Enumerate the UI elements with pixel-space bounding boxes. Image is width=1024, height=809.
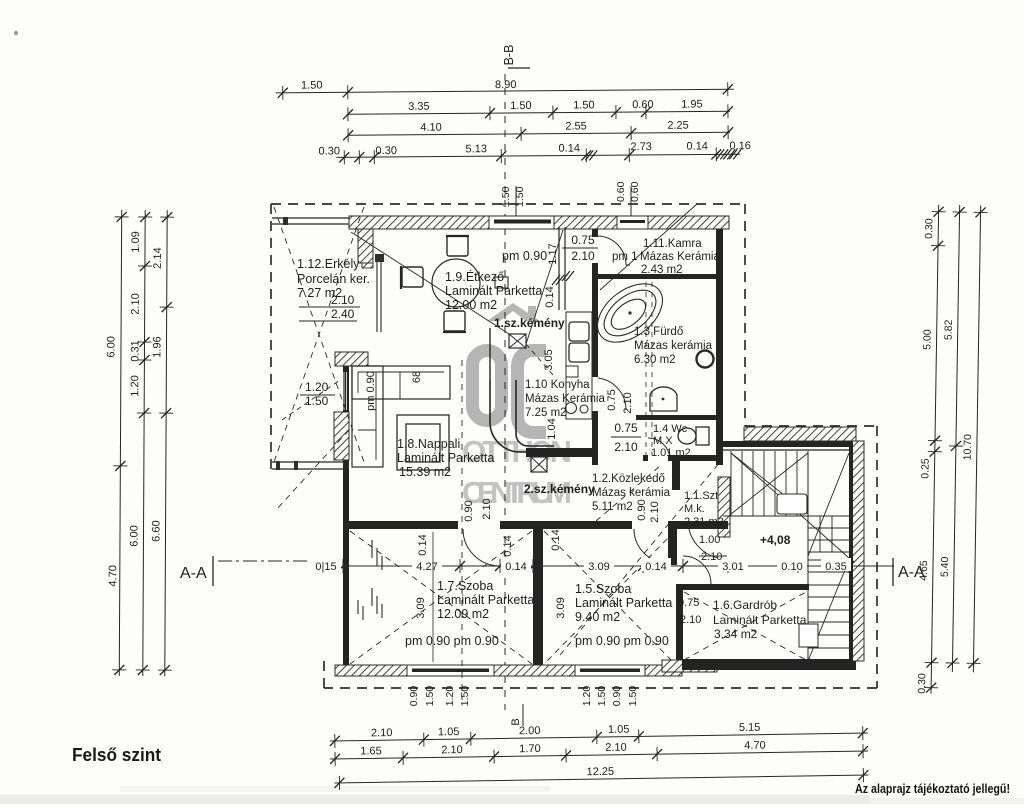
dimension chain bottom row3 total 12.25 xyxy=(334,775,868,783)
gardrob dashed diagonals xyxy=(684,592,806,660)
section line B-B vertical dashed xyxy=(504,74,506,710)
dining diagonal to chimney xyxy=(351,232,509,334)
bath diagonal xyxy=(600,204,697,290)
svg-text:1.50: 1.50 xyxy=(596,686,608,707)
sofa horizontal arm xyxy=(352,366,450,399)
hatched strip above stairs xyxy=(744,427,856,441)
kitchen/bath divider wall upper xyxy=(592,263,598,377)
svg-text:Laminált Parketta: Laminált Parketta xyxy=(437,593,534,607)
kitchen/bath divider wall lower xyxy=(592,411,598,465)
svg-text:0.90: 0.90 xyxy=(463,500,475,521)
svg-text:Mázas Kerámia: Mázas Kerámia xyxy=(525,393,605,405)
svg-text:5.82: 5.82 xyxy=(943,319,955,340)
bottom wall hatched block near stairs xyxy=(662,660,717,672)
pencil marks near left wall xyxy=(371,540,373,558)
dashed site boundary right upper xyxy=(744,204,746,426)
svg-text:pm 1: pm 1 xyxy=(612,251,638,263)
top exterior wall hatched segment A xyxy=(349,216,489,229)
svg-text:3.35: 3.35 xyxy=(408,101,430,113)
svg-text:0.14: 0.14 xyxy=(550,529,562,550)
svg-text:2.10: 2.10 xyxy=(649,501,661,522)
dimension chain left line1 xyxy=(119,210,121,676)
balcony railing top xyxy=(272,217,349,219)
left wall window (Nappali) hatched block xyxy=(334,412,349,460)
scan streak bottom xyxy=(0,795,870,804)
wc toilet xyxy=(678,428,696,444)
watermark letter C xyxy=(518,351,547,433)
hallway to szoba 1.5 door arc xyxy=(634,529,668,563)
svg-text:2.25: 2.25 xyxy=(667,120,689,132)
watermark letter O xyxy=(473,351,502,421)
svg-text:0.10: 0.10 xyxy=(781,561,802,573)
tv table xyxy=(397,415,449,470)
svg-text:1.50: 1.50 xyxy=(510,100,532,112)
svg-text:3.01: 3.01 xyxy=(722,561,743,573)
kamra door arc xyxy=(597,236,626,265)
staircase landing treads right top xyxy=(808,527,849,529)
svg-text:1.50: 1.50 xyxy=(627,686,639,707)
svg-text:1.11.Kamra: 1.11.Kamra xyxy=(643,238,702,250)
svg-text:1.65: 1.65 xyxy=(360,745,382,757)
svg-text:1.01 m2: 1.01 m2 xyxy=(651,447,691,459)
svg-text:1.20: 1.20 xyxy=(129,375,141,396)
chimney duct channel outer xyxy=(490,380,554,452)
wall stub below top wall at balcony xyxy=(358,229,373,263)
chimney wall line upper xyxy=(489,328,491,380)
svg-text:1.50: 1.50 xyxy=(573,99,595,111)
balcony railing bottom xyxy=(272,461,343,463)
svg-text:12.25: 12.25 xyxy=(586,766,614,778)
svg-text:2.43 m2: 2.43 m2 xyxy=(641,264,683,276)
svg-text:0.14: 0.14 xyxy=(417,534,429,555)
interior wall segment 2 xyxy=(500,521,632,529)
svg-text:1.20: 1.20 xyxy=(444,686,456,707)
svg-text:A-A: A-A xyxy=(898,564,925,581)
stair block bottom wall xyxy=(682,659,856,670)
svg-text:A-A: A-A xyxy=(180,565,207,582)
top wall window 2 xyxy=(617,216,648,229)
bath right exterior wall xyxy=(716,229,723,465)
long diagonal through hallway xyxy=(560,462,720,655)
stair right wall hatched xyxy=(852,441,864,661)
szt door arc xyxy=(688,521,727,559)
svg-text:1.95: 1.95 xyxy=(681,99,703,111)
svg-text:2.00: 2.00 xyxy=(519,725,541,737)
svg-text:1.50: 1.50 xyxy=(459,686,471,707)
dashed site boundary right lower xyxy=(876,426,878,688)
wc bottom wall left xyxy=(643,455,648,461)
svg-text:0|15: 0|15 xyxy=(315,561,336,573)
svg-text:15.39 m2: 15.39 m2 xyxy=(399,465,451,479)
szoba 1.5 dashed cross xyxy=(544,531,675,664)
chair left xyxy=(402,267,423,287)
svg-text:1.1.Szt: 1.1.Szt xyxy=(684,490,718,502)
svg-text:1.00: 1.00 xyxy=(699,534,720,546)
wc top wall xyxy=(636,415,716,420)
svg-text:2.10: 2.10 xyxy=(481,498,493,519)
svg-text:0.14: 0.14 xyxy=(544,286,556,307)
svg-text:1.9.Étkező: 1.9.Étkező xyxy=(445,269,504,284)
svg-text:1.3 Fürdő: 1.3 Fürdő xyxy=(634,326,683,338)
svg-text:1.2.Közlekedő: 1.2.Közlekedő xyxy=(592,473,665,485)
shower dashed lines in bath xyxy=(645,282,647,455)
svg-text:6.60: 6.60 xyxy=(150,520,162,541)
kamra bottom wall xyxy=(594,274,716,279)
scan speck top left xyxy=(14,31,18,35)
svg-text:0.60: 0.60 xyxy=(632,99,654,111)
svg-text:Laminált Parketta: Laminált Parketta xyxy=(445,284,542,298)
svg-text:4.70: 4.70 xyxy=(107,565,119,586)
svg-text:2.10: 2.10 xyxy=(571,249,595,263)
bottom wall window 2 xyxy=(575,665,645,676)
svg-text:2.10: 2.10 xyxy=(371,727,393,739)
bottom exterior wall hatched A xyxy=(335,665,407,676)
wall stub below wc xyxy=(672,461,680,490)
svg-text:3.09: 3.09 xyxy=(555,597,567,618)
svg-text:2.sz.kémény: 2.sz.kémény xyxy=(524,482,595,496)
svg-text:0.30: 0.30 xyxy=(318,145,340,157)
svg-text:2.14: 2.14 xyxy=(152,247,164,268)
svg-text:5.13: 5.13 xyxy=(465,143,487,155)
kitchen bottom wall dark xyxy=(526,448,597,457)
szt/gardrob wall lower xyxy=(676,584,683,662)
szoba 1.7 door arc xyxy=(463,529,500,566)
watermark Otthon Centrum logo roof xyxy=(487,303,540,321)
axis dashed vertical x462 xyxy=(461,360,463,700)
svg-text:2.10: 2.10 xyxy=(441,744,463,756)
svg-text:1.96: 1.96 xyxy=(151,336,163,357)
interior wall segment 3 xyxy=(674,521,728,529)
svg-text:5.40: 5.40 xyxy=(939,556,951,577)
svg-text:4.27: 4.27 xyxy=(416,561,437,573)
interior wall nappali/szoba segment 1 xyxy=(349,521,458,529)
gardrob top wall xyxy=(680,584,809,590)
bathtub xyxy=(587,272,674,354)
svg-text:1.20: 1.20 xyxy=(581,686,593,707)
bottom exterior wall hatched B xyxy=(494,665,575,676)
svg-text:0.30: 0.30 xyxy=(375,145,397,157)
svg-text:pm 0.90 pm 0.90: pm 0.90 pm 0.90 xyxy=(405,634,499,648)
svg-text:0.30: 0.30 xyxy=(916,673,928,694)
stove burners xyxy=(566,403,577,414)
gardrob cabinet box xyxy=(799,624,818,647)
bottom exterior wall hatched C xyxy=(645,665,682,676)
dimension chain bottom row1 xyxy=(330,733,868,741)
svg-text:5.00: 5.00 xyxy=(921,329,933,350)
svg-text:Az alaprajz tájékoztató jelleg: Az alaprajz tájékoztató jellegű! xyxy=(855,782,1010,796)
top exterior wall hatched segment C xyxy=(648,216,729,229)
svg-text:1.05: 1.05 xyxy=(608,724,630,736)
top exterior wall hatched segment B xyxy=(554,216,617,229)
svg-text:Laminált Parketta: Laminált Parketta xyxy=(713,613,807,627)
svg-text:2.10: 2.10 xyxy=(605,742,627,754)
dimension chain top row2 xyxy=(348,111,730,114)
svg-text:Mázas Kerámia: Mázas Kerámia xyxy=(640,251,720,263)
svg-text:M.k.: M.k. xyxy=(684,503,705,515)
svg-text:12.09 m2: 12.09 m2 xyxy=(437,607,489,621)
szoba divider wall xyxy=(533,521,543,665)
svg-text:1.09: 1.09 xyxy=(130,231,142,252)
svg-text:6.30 m2: 6.30 m2 xyxy=(634,354,676,366)
svg-text:0.90: 0.90 xyxy=(611,686,623,707)
svg-text:1.50: 1.50 xyxy=(301,79,323,91)
svg-text:1.50: 1.50 xyxy=(424,686,436,707)
svg-text:2.10: 2.10 xyxy=(622,392,634,413)
partition diagonal to chimney xyxy=(526,230,563,344)
svg-text:0.60: 0.60 xyxy=(615,181,627,202)
gardrob door arc xyxy=(683,556,711,584)
dashed site boundary left xyxy=(270,204,272,470)
dimension chain top row1 total 8.90 xyxy=(276,89,734,93)
svg-text:Porcelán ker.: Porcelán ker. xyxy=(297,272,370,286)
dimension chain left line2 xyxy=(143,210,145,676)
dashed site boundary jog xyxy=(745,425,877,427)
svg-text:4.70: 4.70 xyxy=(744,740,766,752)
kitchen sink 2 xyxy=(569,343,589,362)
svg-text:0.16: 0.16 xyxy=(729,140,751,152)
svg-text:0.75: 0.75 xyxy=(606,389,618,410)
svg-text:1.6.Gardrób: 1.6.Gardrób xyxy=(713,598,777,612)
svg-text:1.20: 1.20 xyxy=(305,380,329,394)
szt wall stub upper xyxy=(668,521,677,565)
chimney 1 box xyxy=(509,334,526,348)
dining table xyxy=(432,259,480,307)
svg-text:9.40 m2: 9.40 m2 xyxy=(575,610,620,624)
svg-text:0.90: 0.90 xyxy=(408,686,420,707)
svg-text:0.35: 0.35 xyxy=(825,561,846,573)
dashed site boundary left lower xyxy=(323,660,325,688)
dimension chain top row3 xyxy=(348,132,730,135)
wc door arc xyxy=(648,438,670,459)
stair left wall hatched xyxy=(718,477,730,537)
wall block left protruding xyxy=(335,352,368,366)
svg-text:2.10: 2.10 xyxy=(701,551,722,563)
svg-text:Laminált Parketta: Laminált Parketta xyxy=(397,451,494,465)
svg-text:M X: M X xyxy=(653,435,673,447)
svg-text:pm 0.90: pm 0.90 xyxy=(502,249,547,263)
dimension chain right line2 xyxy=(952,205,959,672)
svg-text:1.05: 1.05 xyxy=(438,726,460,738)
svg-text:0.14: 0.14 xyxy=(502,535,514,556)
kamra left wall stub xyxy=(592,229,598,237)
balcony door column xyxy=(375,254,384,262)
svg-text:0.14: 0.14 xyxy=(686,140,708,152)
svg-text:8.90: 8.90 xyxy=(495,79,517,91)
svg-text:1.4 Wc: 1.4 Wc xyxy=(653,423,688,435)
svg-text:0.75: 0.75 xyxy=(678,597,699,609)
dimension chain left line3 xyxy=(165,210,167,676)
svg-text:Mázas kerámia: Mázas kerámia xyxy=(592,487,671,499)
svg-text:1.70: 1.70 xyxy=(519,743,541,755)
svg-text:2.55: 2.55 xyxy=(565,120,587,132)
svg-text:2.10: 2.10 xyxy=(331,293,355,307)
bath door arc xyxy=(598,378,626,410)
staircase diagonals xyxy=(731,453,808,514)
svg-text:1.04: 1.04 xyxy=(546,418,558,439)
chair bottom xyxy=(444,311,465,331)
svg-text:1.10 Konyha: 1.10 Konyha xyxy=(525,379,590,391)
svg-text:0.75: 0.75 xyxy=(614,421,638,435)
stair top wall xyxy=(723,441,856,447)
svg-text:pm 0.90: pm 0.90 xyxy=(365,371,377,411)
kitchen sink 1 xyxy=(569,322,589,341)
svg-text:2.10: 2.10 xyxy=(614,440,638,454)
svg-text:6.00: 6.00 xyxy=(105,336,117,357)
svg-text:68: 68 xyxy=(411,371,423,383)
svg-text:0.90: 0.90 xyxy=(636,499,648,520)
washing machine circle xyxy=(697,351,714,368)
svg-text:3.05: 3.05 xyxy=(543,349,555,370)
left exterior wall xyxy=(343,366,349,672)
dashed site boundary bottom xyxy=(324,687,877,689)
svg-text:4.10: 4.10 xyxy=(420,122,442,134)
svg-text:1.8.Nappali: 1.8.Nappali xyxy=(397,437,460,451)
kitchen counter xyxy=(566,312,592,419)
svg-text:12.00 m2: 12.00 m2 xyxy=(445,298,497,312)
svg-text:5.11 m2: 5.11 m2 xyxy=(592,501,633,513)
svg-text:0.25: 0.25 xyxy=(919,458,931,479)
wc bottom wall right xyxy=(668,455,723,461)
svg-text:3.34 m2: 3.34 m2 xyxy=(714,627,758,641)
svg-text:0.31: 0.31 xyxy=(129,340,141,361)
svg-text:pm 0.90 pm 0.90: pm 0.90 pm 0.90 xyxy=(575,634,669,648)
svg-text:+4,08: +4,08 xyxy=(760,533,791,547)
svg-text:1.7.Szoba: 1.7.Szoba xyxy=(437,579,493,593)
section marker A-A right xyxy=(892,558,894,586)
svg-text:1.12.Erkély: 1.12.Erkély xyxy=(297,257,360,271)
svg-text:0.14: 0.14 xyxy=(505,561,526,573)
szoba 1.7 dashed cross xyxy=(350,531,532,664)
chair top xyxy=(447,236,468,256)
dimension chain right line1 xyxy=(931,205,939,694)
svg-text:0.14: 0.14 xyxy=(558,142,580,154)
svg-text:2.73: 2.73 xyxy=(630,141,652,153)
staircase right flight treads xyxy=(808,559,849,561)
svg-text:1.50: 1.50 xyxy=(305,394,329,408)
svg-text:Mázas kerámia: Mázas kerámia xyxy=(634,340,713,352)
dimension chain top row4 xyxy=(336,154,740,157)
svg-text:1.sz.kémény: 1.sz.kémény xyxy=(494,316,565,330)
svg-text:0.75: 0.75 xyxy=(571,233,595,247)
hallway diagonal xyxy=(596,466,660,521)
dashed site boundary top xyxy=(271,203,745,205)
svg-text:7.25 m2: 7.25 m2 xyxy=(525,407,567,419)
dimension chain bottom row2 xyxy=(330,751,868,759)
dimension extension line in szoba 1.7 xyxy=(432,532,434,662)
main horizontal dimension line through plan xyxy=(343,565,894,567)
svg-text:1.17: 1.17 xyxy=(547,243,559,264)
bath washbasin xyxy=(650,387,677,411)
svg-text:B: B xyxy=(510,718,522,725)
svg-text:0.14: 0.14 xyxy=(645,561,666,573)
svg-text:0.30: 0.30 xyxy=(923,218,935,239)
staircase label box xyxy=(777,494,807,514)
svg-text:B-B: B-B xyxy=(502,45,516,66)
double tick marks on partition xyxy=(552,275,560,285)
svg-text:3.09: 3.09 xyxy=(415,597,427,618)
dimension chain right line3 xyxy=(973,205,980,672)
chimney 2 box xyxy=(531,457,547,472)
svg-text:Laminált Parketta: Laminált Parketta xyxy=(575,596,672,610)
chimney duct channel inner xyxy=(516,380,554,446)
sofa vertical arm xyxy=(352,366,383,467)
svg-text:Felső szint: Felső szint xyxy=(72,745,161,765)
svg-text:2.40: 2.40 xyxy=(331,307,355,321)
balcony diagonal cross xyxy=(274,207,364,462)
svg-text:2.10: 2.10 xyxy=(680,614,701,626)
diagonal below balcony xyxy=(276,430,349,510)
staircase upper flight treads xyxy=(730,451,732,516)
top wall window 1 xyxy=(489,216,554,229)
bottom wall window 1 xyxy=(407,665,494,676)
dining/kitchen thin partition xyxy=(558,227,560,310)
svg-text:6.00: 6.00 xyxy=(128,525,140,546)
svg-text:10.70: 10.70 xyxy=(962,434,974,461)
kitchen small box xyxy=(566,366,578,377)
svg-text:1.5.Szoba: 1.5.Szoba xyxy=(575,582,631,596)
svg-text:2.31 m2: 2.31 m2 xyxy=(684,516,724,528)
svg-text:5.15: 5.15 xyxy=(739,722,761,734)
svg-text:3.09: 3.09 xyxy=(588,561,609,573)
svg-text:2.10: 2.10 xyxy=(130,293,142,314)
